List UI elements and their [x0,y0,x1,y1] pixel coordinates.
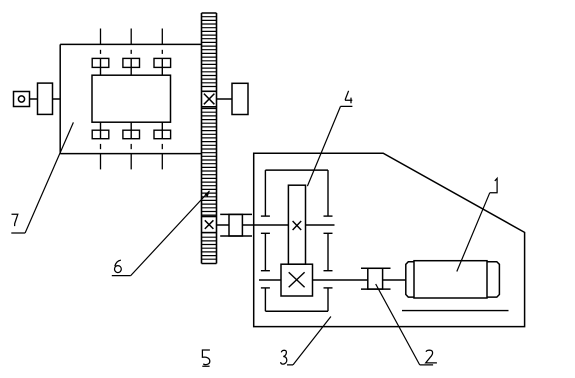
motor 1 body [414,261,487,298]
coupling (left input) [38,83,53,114]
input shaft right stub [306,224,335,226]
motor 1 left end bell [406,262,414,297]
output shaft to coupling 2 [313,279,368,281]
input shaft into housing 3 [242,224,288,226]
motor mounting base line [402,310,509,312]
bearing block bottom 3 [154,122,171,139]
guide centerline 1 (dash inside top) [100,50,102,54]
guide centerline 1 (bottom stub) [100,154,102,169]
coupling (rack drive) [220,214,252,236]
upper shaft support block [232,83,248,114]
gearbox housing 7 [60,44,201,153]
leader line 1 [457,193,490,272]
guide centerline 3 (bottom stub) [161,154,163,169]
label 5 [202,350,210,366]
vertical gear shaft 4 [288,185,305,264]
leader line 3 [293,317,331,365]
label 3 [281,350,293,365]
drive unit with circle (left handwheel/motor) [14,92,30,107]
guide centerline 2 (top stub) [130,29,132,45]
leader 6 arrowhead [205,191,210,198]
housing 3 outline [254,153,525,326]
bearing block top 1 [92,58,109,75]
label 6 [112,260,131,276]
gear mark X in lower gear box [289,272,305,287]
guide centerline 2 (bottom stub) [130,154,132,169]
guide centerline 1 (dash inside bottom) [100,144,102,149]
shaft from drive unit to coupling [30,98,38,100]
leader line 4 [307,106,340,186]
output shaft left stub [259,279,281,281]
guide centerline 1 (top stub) [100,29,102,45]
upper pinion shaft [217,98,233,100]
gear mark X on shaft 4 [293,221,302,230]
gear rack teeth (rungs) [202,17,217,260]
coupling 2 [361,268,391,289]
gear on rack, upper (X box 6) [202,91,217,107]
guide centerline 3 (dash inside bottom) [161,144,163,149]
bearing block top 3 [154,58,171,75]
leader line 2 [376,284,420,365]
leader line 7 [25,122,73,233]
guide centerline 2 (dash inside bottom) [130,144,132,149]
bearing block bottom 1 [92,122,109,139]
gear on rack, lower (X box) [202,217,217,233]
shaft from coupling into housing 7 [53,98,61,100]
gear unit frame bottom [265,310,328,312]
guide centerline 2 (dash inside top) [130,50,132,54]
gear rack column 5 (outline) [202,13,217,264]
motor shaft [383,279,406,281]
gear unit frame top [265,169,328,171]
gear unit frame right wall with bearing gaps [324,170,333,311]
guide centerline 3 (top stub) [161,29,163,45]
rack drive shaft (gear to coupling) [217,224,230,226]
label 2 [420,350,437,365]
label 4 [341,91,353,107]
work table (inner rectangle) [92,75,171,122]
lower gear box [281,264,313,296]
motor 1 right end bell [487,262,499,297]
label 7 [11,214,25,233]
leader line 6 [131,191,210,276]
label 1 [490,178,498,192]
guide centerline 3 (dash inside top) [161,50,163,54]
gear unit frame left wall with bearing gaps [261,170,270,311]
bearing block bottom 2 [123,122,140,139]
bearing block top 2 [123,58,140,75]
